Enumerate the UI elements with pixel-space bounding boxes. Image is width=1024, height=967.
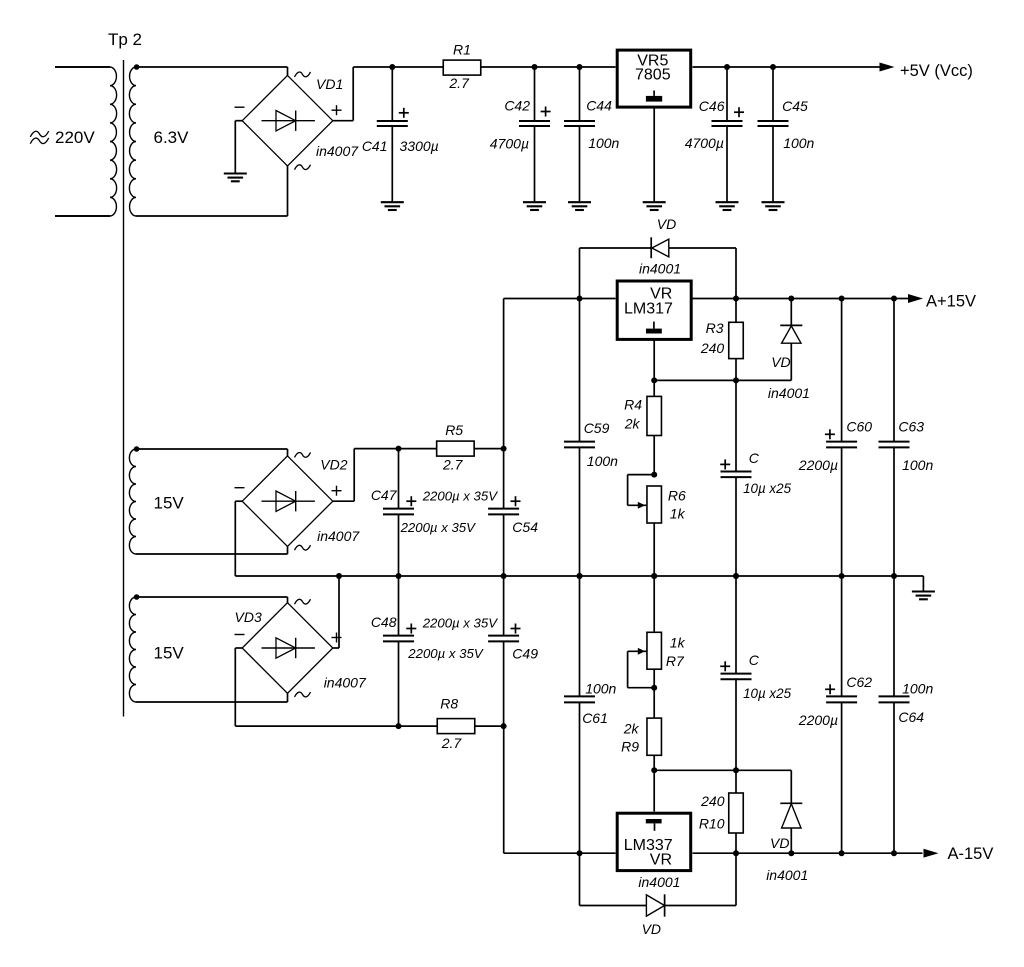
capacitor C63 [879, 419, 934, 474]
capacitor C 10u x25 positive [720, 450, 791, 496]
protection diode VD at R10 (in4001) [780, 770, 802, 853]
ground below C45 [762, 202, 785, 210]
wire C54 riser to LM317 input [504, 299, 616, 449]
wire C10u positive column [735, 380, 737, 576]
wire VD3 minus lead [235, 648, 242, 726]
svg-text:2.7: 2.7 [448, 75, 470, 91]
svg-text:in4007: in4007 [324, 675, 367, 691]
junction C48 bottom raw negative rail [396, 723, 402, 729]
wire R7 to R9 [653, 688, 655, 718]
protection diode VD above LM317 [580, 237, 737, 298]
svg-text:VR: VR [650, 852, 672, 869]
svg-text:C63: C63 [898, 419, 924, 435]
svg-text:7805: 7805 [635, 67, 671, 84]
junction VD3 plus mid rail [336, 573, 342, 579]
arrow A-15V output [924, 849, 939, 858]
svg-text:VD: VD [657, 216, 676, 232]
svg-text:VD: VD [770, 835, 789, 851]
junction C10u positive bottom [733, 573, 739, 579]
capacitor C59 [564, 420, 618, 469]
wire raw positive rail right [475, 448, 504, 450]
svg-text:in4001: in4001 [766, 867, 808, 883]
svg-text:2k: 2k [624, 416, 641, 432]
svg-text:240: 240 [700, 340, 725, 356]
svg-text:in4007: in4007 [316, 143, 359, 159]
wire +5V rail segment C [693, 66, 881, 68]
junction C60 bottom mid rail [839, 573, 845, 579]
potentiometer R7 [647, 632, 686, 669]
junction C49 bottom raw negative rail [501, 723, 507, 729]
wire VD1 top AC stub [287, 67, 289, 75]
regulator VR LM317 [617, 281, 691, 339]
protection diode VD at R3 (in4001) [736, 299, 802, 381]
wire C45 column [772, 67, 774, 202]
svg-text:in4001: in4001 [768, 385, 810, 401]
wire R7 top [653, 576, 655, 632]
svg-text:100n: 100n [588, 135, 619, 151]
wire adj junction line negative [654, 769, 791, 771]
junction C63 bottom mid rail [891, 573, 897, 579]
capacitor C49 [488, 624, 538, 662]
svg-text:C54: C54 [512, 519, 538, 535]
resistor R10 [699, 793, 743, 833]
junction C54 bottom mid rail [501, 573, 507, 579]
junction R6 bottom mid rail [651, 573, 657, 579]
ground below C44 [568, 202, 591, 210]
wiper of R6 [628, 475, 655, 509]
ground at mid rail right end [912, 592, 935, 600]
wire R4 to R6 [653, 436, 655, 475]
wire R6 bottom [653, 523, 655, 576]
wire A+15V rail [693, 298, 909, 300]
resistor R5 [437, 422, 475, 473]
svg-text:A+15V: A+15V [926, 292, 976, 310]
wire raw negative rail right [475, 725, 504, 727]
arrow A+15V output [908, 294, 923, 303]
wire C49 column [503, 576, 505, 726]
svg-text:C48: C48 [371, 614, 397, 630]
svg-text:R8: R8 [440, 696, 458, 712]
svg-text:VD3: VD3 [235, 609, 262, 625]
svg-text:240: 240 [700, 793, 725, 809]
wire adj junction line [654, 379, 736, 381]
svg-text:100n: 100n [783, 135, 814, 151]
ground below C46 [716, 202, 739, 210]
wire VD3 bottom AC stub [287, 693, 289, 702]
resistor R8 [437, 696, 475, 751]
wire VD3 top AC stub [287, 597, 289, 603]
junction C45 top [770, 64, 776, 70]
svg-text:C41: C41 [362, 138, 388, 154]
svg-text:Tp 2: Tp 2 [108, 30, 142, 49]
svg-text:R6: R6 [668, 488, 686, 504]
junction C10u negative top [733, 573, 739, 579]
svg-text:3300µ: 3300µ [400, 138, 439, 154]
svg-text:R7: R7 [666, 653, 685, 669]
wire C46 column [726, 67, 728, 202]
wire VD2 plus lead [333, 449, 354, 502]
svg-text:C47: C47 [371, 487, 398, 503]
capacitor C41 [362, 108, 439, 154]
svg-text:15V: 15V [154, 494, 185, 513]
ground below 7805 [643, 202, 666, 210]
svg-text:15V: 15V [154, 643, 185, 662]
wire C10u negative column [735, 576, 737, 770]
svg-text:VD: VD [642, 921, 661, 937]
junction C44 top [577, 64, 583, 70]
wire VD1 minus lead [235, 121, 242, 174]
junction R7 wiper [651, 685, 657, 691]
svg-text:VD: VD [771, 354, 790, 370]
wire R10 column [735, 770, 737, 853]
svg-text:100n: 100n [587, 453, 618, 469]
capacitor C48 [371, 614, 498, 661]
junction adj line left negative [651, 767, 657, 773]
junction R10 bottom A-15V rail [733, 850, 739, 856]
junction C64 bottom A-15V rail [891, 850, 897, 856]
capacitor C62 [798, 674, 872, 728]
junction R6 wiper [651, 472, 657, 478]
svg-text:A-15V: A-15V [948, 845, 994, 863]
wire R3 column [735, 299, 737, 381]
capacitor C45 [758, 98, 815, 151]
svg-text:2.7: 2.7 [442, 456, 464, 472]
svg-text:2200µ: 2200µ [798, 457, 838, 473]
svg-text:10µ x25: 10µ x25 [743, 481, 791, 496]
junction C61 bottom A-15V rail [577, 850, 583, 856]
wire 7805 ground pin [653, 107, 655, 202]
wire C54 column [503, 449, 505, 576]
svg-text:2k: 2k [623, 721, 640, 737]
capacitor C60 [798, 419, 872, 474]
capacitor C42 [490, 98, 551, 152]
junction C59 top [577, 296, 583, 302]
svg-text:2200µ x 35V: 2200µ x 35V [422, 489, 499, 504]
svg-text:10µ x25: 10µ x25 [743, 686, 791, 701]
svg-text:1k: 1k [670, 506, 686, 522]
svg-text:100n: 100n [902, 457, 933, 473]
svg-text:C: C [749, 652, 760, 668]
wire raw positive rail left [354, 448, 436, 450]
junction C41 top [389, 64, 395, 70]
wire R9 bottom [653, 755, 655, 770]
junction C62 bottom A-15V rail [839, 850, 845, 856]
junction C42 top [532, 64, 538, 70]
svg-text:R9: R9 [621, 739, 639, 755]
capacitor C54 [488, 496, 538, 535]
svg-text:2.7: 2.7 [441, 735, 463, 751]
junction adj line left [651, 377, 657, 383]
junction C61 top mid rail [577, 573, 583, 579]
svg-text:6.3V: 6.3V [154, 128, 190, 147]
wire C59 column [579, 299, 581, 577]
protection diode VD below LM337 [580, 853, 737, 917]
junction R3 top [733, 296, 739, 302]
secondary winding 15V upper [129, 446, 287, 554]
svg-text:2200µ: 2200µ [798, 712, 838, 728]
bridge rectifier VD2 [235, 452, 342, 550]
wiper of R7 [628, 648, 655, 688]
svg-text:in4001: in4001 [638, 874, 680, 890]
capacitor C61 [564, 681, 617, 727]
secondary winding 15V lower [129, 594, 287, 702]
capacitor C44 [564, 98, 620, 152]
wire C60 column [841, 299, 843, 577]
svg-text:R1: R1 [453, 42, 471, 58]
svg-text:100n: 100n [585, 681, 616, 697]
wire C64 column [893, 576, 895, 853]
svg-text:C: C [749, 450, 760, 466]
wire LM317 adj pin [653, 339, 655, 380]
svg-text:2200µ x 35V: 2200µ x 35V [400, 520, 477, 535]
wire A-15V rail [693, 852, 923, 854]
wire C63 column [893, 299, 895, 577]
junction C46 top [724, 64, 730, 70]
wire C42 column [534, 67, 536, 202]
wire C61 column [579, 576, 581, 853]
svg-text:2200µ x 35V: 2200µ x 35V [407, 646, 484, 661]
ground below C41 [381, 202, 404, 210]
svg-text:C49: C49 [512, 646, 538, 662]
svg-text:4700µ: 4700µ [685, 135, 724, 151]
ground below C42 [523, 202, 546, 210]
wire VD3 plus lead [333, 576, 339, 648]
wire +5V rail segment B [481, 66, 616, 68]
svg-text:C59: C59 [584, 420, 610, 436]
junction C47 bottom mid rail [396, 573, 402, 579]
wire C44 column [579, 67, 581, 202]
resistor R3 [700, 320, 743, 359]
junction C47 top [396, 446, 402, 452]
junction VD anode A+15V [788, 296, 794, 302]
svg-text:R5: R5 [445, 422, 463, 438]
wire C48 column [398, 576, 400, 726]
resistor R1 [443, 42, 481, 91]
wire LM337 adj pin [653, 770, 655, 811]
junction R3 bottom [733, 377, 739, 383]
ground at VD1 minus [224, 174, 247, 182]
bridge rectifier VD1 [235, 72, 342, 170]
wire VD1 bottom AC stub [287, 166, 289, 216]
AC source squiggle [30, 131, 48, 144]
wire mid rail ground stub [922, 576, 924, 592]
capacitor C47 [371, 487, 498, 535]
junction C63 top [891, 296, 897, 302]
svg-text:220V: 220V [55, 128, 95, 147]
junction C10u negative bottom [733, 767, 739, 773]
svg-text:in4007: in4007 [317, 528, 360, 544]
junction R7 top mid rail [651, 573, 657, 579]
junction VD cathode A-15V [788, 850, 794, 856]
junction C59 bottom mid rail [577, 573, 583, 579]
svg-text:C45: C45 [782, 98, 808, 114]
svg-text:C64: C64 [898, 709, 924, 725]
svg-text:4700µ: 4700µ [490, 136, 529, 152]
wire C41 column [391, 67, 393, 202]
potentiometer R6 [647, 486, 686, 523]
svg-text:in4001: in4001 [639, 261, 681, 277]
wire VD1 plus lead [333, 67, 353, 121]
svg-text:+5V (Vcc): +5V (Vcc) [900, 62, 973, 80]
arrow +5V output [880, 63, 895, 72]
wire R4 top [653, 380, 655, 396]
regulator VR LM337 [617, 813, 691, 870]
svg-text:C61: C61 [582, 710, 608, 726]
wire VD2 top AC stub [287, 449, 289, 456]
wire C62 column [841, 576, 843, 853]
svg-text:C46: C46 [699, 98, 725, 114]
svg-text:C60: C60 [846, 419, 872, 435]
svg-text:VD2: VD2 [320, 457, 347, 473]
svg-text:1k: 1k [670, 635, 686, 651]
wire VD2 bottom AC stub [287, 547, 289, 555]
wire VD2 minus lead [235, 501, 242, 576]
junction C60 top [839, 296, 845, 302]
wire R7 bottom [653, 669, 655, 688]
wire C47 column upper [398, 449, 400, 576]
svg-text:C42: C42 [504, 98, 530, 114]
svg-text:2200µ x 35V: 2200µ x 35V [422, 616, 499, 631]
svg-text:VD1: VD1 [316, 76, 343, 92]
capacitor C 10u x25 negative [720, 652, 791, 701]
secondary winding 6.3V [129, 64, 287, 216]
transformer primary winding 220V [55, 67, 110, 216]
wire riser to LM337 input [504, 726, 616, 853]
svg-text:R4: R4 [624, 397, 642, 413]
bridge rectifier VD3 [235, 599, 342, 697]
wire mid ground rail [235, 575, 923, 577]
resistor R9 [621, 718, 661, 755]
wire +5V rail segment A [353, 66, 443, 68]
svg-text:100n: 100n [902, 681, 933, 697]
regulator VR5 7805 [617, 50, 691, 107]
resistor R4 [624, 396, 662, 435]
svg-text:R10: R10 [699, 816, 725, 832]
svg-text:C44: C44 [586, 98, 612, 114]
capacitor C64 [879, 681, 934, 726]
primary coil [55, 67, 117, 216]
transformer core [123, 60, 125, 717]
junction C54 top [501, 446, 507, 452]
svg-text:LM317: LM317 [624, 301, 673, 318]
svg-text:C62: C62 [846, 674, 872, 690]
capacitor C46 [685, 98, 744, 151]
svg-text:R3: R3 [706, 320, 724, 336]
wire raw negative rail left [235, 725, 437, 727]
